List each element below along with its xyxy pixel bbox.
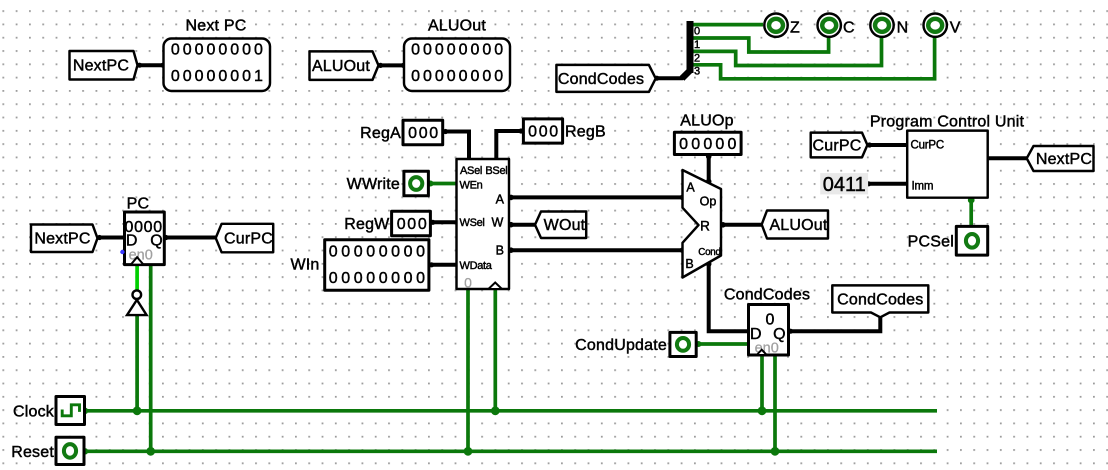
svg-text:WData: WData [460,260,493,272]
svg-text:N: N [897,20,909,37]
svg-text:V: V [950,20,961,37]
svg-text:2: 2 [694,52,700,64]
svg-text:0411: 0411 [823,174,866,196]
svg-text:CurPC: CurPC [812,137,861,154]
svg-text:RegW: RegW [344,216,390,233]
svg-text:RegB: RegB [565,123,606,140]
svg-text:Next PC: Next PC [186,18,247,35]
svg-text:00000000: 00000000 [171,42,266,59]
svg-text:000: 000 [408,125,440,142]
svg-text:PCSel: PCSel [908,233,954,250]
svg-text:000: 000 [397,216,429,233]
svg-text:NextPC: NextPC [73,58,129,75]
svg-text:A: A [496,192,505,206]
svg-text:NextPC: NextPC [34,231,90,248]
svg-text:00000000: 00000000 [411,42,506,59]
svg-text:ALUOut: ALUOut [769,217,827,234]
svg-text:RegA: RegA [360,125,401,142]
svg-text:WSel: WSel [460,217,485,229]
svg-text:CondCodes: CondCodes [837,292,923,309]
svg-text:Z: Z [790,20,800,37]
svg-text:Clock: Clock [13,403,55,420]
svg-text:CondUpdate: CondUpdate [575,337,667,354]
svg-text:Program Control Unit: Program Control Unit [870,114,1025,131]
svg-text:1: 1 [694,39,700,51]
svg-text:WIn: WIn [290,257,319,274]
svg-text:CondCodes: CondCodes [558,71,644,88]
svg-text:BSel: BSel [485,165,507,177]
svg-text:Imm: Imm [912,180,934,192]
svg-text:00000001: 00000001 [171,68,266,85]
svg-text:C: C [843,20,855,37]
svg-text:00000000: 00000000 [329,243,429,260]
svg-text:W: W [492,215,504,229]
svg-text:A: A [686,180,695,194]
svg-text:B: B [685,257,693,271]
svg-text:ALUOut: ALUOut [312,58,370,75]
svg-text:CondCodes: CondCodes [724,287,810,304]
svg-text:Cond: Cond [698,247,721,258]
svg-text:000: 000 [528,124,560,141]
svg-text:00000000: 00000000 [411,68,506,85]
svg-text:Reset: Reset [11,444,54,461]
svg-text:0: 0 [464,275,472,291]
svg-text:Op: Op [700,195,717,209]
svg-text:WOut: WOut [544,217,586,234]
svg-text:CurPC: CurPC [911,140,945,152]
svg-text:CurPC: CurPC [224,230,273,247]
svg-text:00000: 00000 [679,136,740,153]
svg-text:B: B [496,243,504,257]
svg-text:ASel: ASel [460,165,482,177]
svg-text:NextPC: NextPC [1036,151,1092,168]
svg-text:ALUOp: ALUOp [680,113,733,130]
svg-text:00000000: 00000000 [329,270,429,287]
svg-text:R: R [700,218,710,233]
svg-text:ALUOut: ALUOut [428,18,486,35]
svg-text:WWrite: WWrite [347,176,400,193]
svg-text:WEn: WEn [460,180,483,192]
svg-text:0: 0 [694,26,700,38]
svg-text:PC: PC [127,196,150,213]
svg-text:3: 3 [694,66,700,78]
